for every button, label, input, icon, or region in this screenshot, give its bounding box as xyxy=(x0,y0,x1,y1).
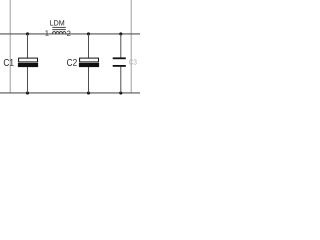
wire: C3 lower lead xyxy=(120,66,122,93)
label C3 xyxy=(129,59,137,64)
label LDM xyxy=(50,20,64,25)
capacitor C2 (polarized) xyxy=(79,58,99,67)
junction: C2 bottom node xyxy=(87,91,90,94)
pin 2 of LDM xyxy=(67,31,70,36)
capacitor C3 xyxy=(113,58,126,66)
wire: right port line xyxy=(130,0,132,93)
inductor LDM (iron core) xyxy=(52,27,66,34)
wire: left port line xyxy=(9,0,11,93)
wire: C1 lower lead xyxy=(27,67,29,93)
junction: C2 top node xyxy=(87,32,90,35)
junction: C3 top node xyxy=(119,32,122,35)
junction: C1 bottom node xyxy=(26,91,29,94)
wire: top rail xyxy=(0,33,140,35)
wire: C2 upper lead xyxy=(88,34,90,58)
wire: bottom rail xyxy=(0,92,140,94)
label C2 xyxy=(67,59,77,66)
label C1 xyxy=(4,59,14,66)
wire: C1 upper lead xyxy=(27,34,29,58)
wire: C2 lower lead xyxy=(88,67,90,93)
junction: C1 top node xyxy=(26,32,29,35)
junction: C3 bottom node xyxy=(119,91,122,94)
pin 1 of LDM xyxy=(45,30,48,35)
wire: C3 upper lead xyxy=(120,34,122,58)
capacitor C1 (polarized) xyxy=(18,58,38,67)
